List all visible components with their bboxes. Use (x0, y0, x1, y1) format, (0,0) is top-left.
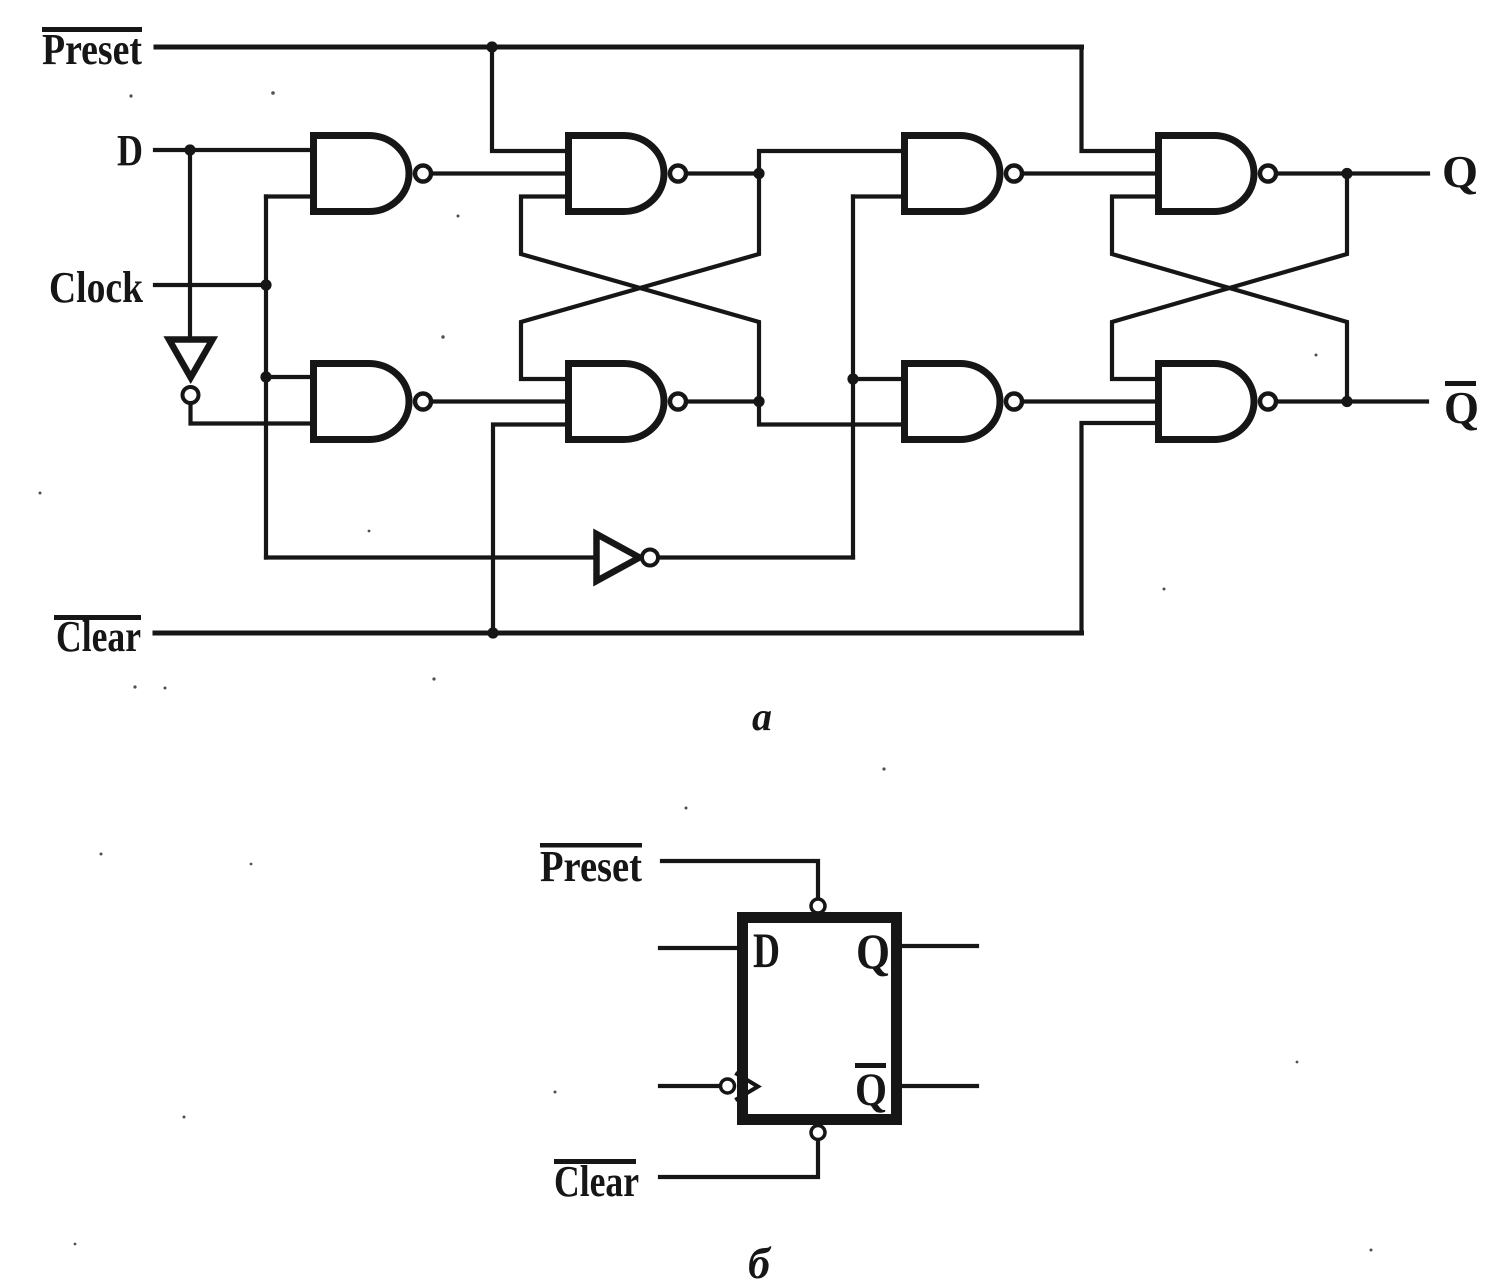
svg-text:Clock: Clock (49, 263, 143, 312)
svg-text:Q: Q (1442, 146, 1478, 197)
svg-text:Q: Q (856, 923, 890, 979)
svg-text:Preset: Preset (540, 842, 642, 891)
svg-text:D: D (117, 126, 143, 175)
svg-text:D: D (753, 922, 780, 978)
svg-text:Clear: Clear (554, 1157, 639, 1206)
svg-text:б: б (748, 1239, 772, 1285)
svg-text:Q: Q (1444, 382, 1479, 433)
svg-text:Q: Q (855, 1064, 887, 1116)
svg-text:Preset: Preset (42, 25, 142, 74)
svg-text:a: a (752, 694, 772, 739)
